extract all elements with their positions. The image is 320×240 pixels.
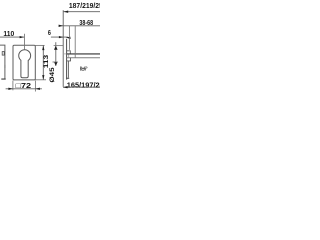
svg-text:187/219/252: 187/219/252 bbox=[69, 2, 100, 10]
svg-text:110: 110 bbox=[3, 30, 14, 38]
svg-text:Ø45: Ø45 bbox=[49, 67, 56, 83]
svg-text:113: 113 bbox=[43, 54, 50, 68]
svg-text:6: 6 bbox=[48, 29, 51, 37]
svg-text:165/197/245: 165/197/245 bbox=[67, 82, 100, 90]
svg-text:□72: □72 bbox=[16, 82, 32, 90]
svg-text:8±6°: 8±6° bbox=[80, 66, 88, 72]
